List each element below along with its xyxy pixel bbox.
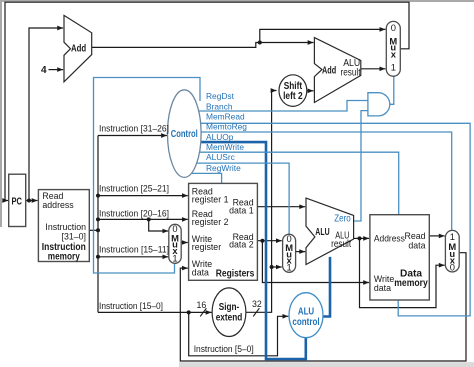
wire PC+4 from Add to branch Adder bbox=[92, 43, 314, 48]
node Instruction [20-16] branch junction bbox=[147, 217, 151, 221]
wire Branch control to AND gate bbox=[198, 101, 368, 112]
wire Instruction [31-26] to Control bbox=[98, 135, 167, 137]
wire MemWrite control to Data memory top bbox=[200, 152, 399, 214]
mux ALUSrc before ALU bbox=[283, 233, 296, 273]
svg-text:data: data bbox=[374, 283, 391, 293]
svg-text:register 2: register 2 bbox=[192, 217, 229, 227]
svg-text:x: x bbox=[391, 48, 397, 59]
svg-text:ALU: ALU bbox=[315, 226, 329, 238]
node ALU result junction bbox=[358, 236, 362, 240]
wire ALU result bypass to MemtoReg mux input 0 bbox=[360, 238, 445, 307]
wire Read data 2 branch to Data memory Write data bbox=[262, 241, 369, 283]
svg-text:ALUSrc: ALUSrc bbox=[206, 152, 235, 162]
svg-text:Instruction [15–11]: Instruction [15–11] bbox=[99, 245, 169, 255]
svg-text:Address: Address bbox=[374, 233, 406, 243]
svg-text:PC: PC bbox=[12, 196, 23, 208]
wire PC to Instruction memory read address bbox=[26, 200, 38, 202]
svg-text:MemWrite: MemWrite bbox=[206, 142, 244, 152]
wire shift-left-2 output to branch Adder bbox=[307, 90, 314, 92]
wire Data memory Read data to MemtoReg mux input 1 bbox=[429, 235, 444, 237]
node Instruction [15-0] junction bbox=[187, 310, 191, 314]
wire ALUOp control to ALU control (thick) bbox=[201, 142, 306, 359]
wire ALUSrc mux output to ALU bbox=[296, 251, 306, 253]
wire Instruction [20-16] to Read register 2 bbox=[98, 218, 188, 220]
mux RegDst before Registers bbox=[169, 223, 181, 263]
wire MemtoReg mux output wraps back to Write data of Registers bbox=[180, 253, 466, 361]
wire RegDst mux output to Write register bbox=[181, 242, 188, 244]
node PC+4 junction bbox=[258, 41, 262, 45]
wire AND gate output to PCSrc mux select bbox=[390, 76, 394, 104]
svg-text:left 2: left 2 bbox=[283, 91, 303, 102]
node bus junction instruction output bbox=[96, 228, 100, 232]
wire ALU result to Data memory Address bbox=[354, 237, 370, 239]
node bus junction for Instruction [15-11] bbox=[96, 255, 100, 259]
svg-text:0: 0 bbox=[391, 22, 396, 33]
wire branch Adder output to PCSrc mux input 1 bbox=[361, 68, 386, 70]
svg-text:ALUOp: ALUOp bbox=[206, 132, 234, 142]
adder Add (PC+4) bbox=[64, 15, 92, 81]
svg-text:Instruction [20–16]: Instruction [20–16] bbox=[99, 208, 169, 218]
register PC bbox=[9, 174, 26, 226]
svg-text:data: data bbox=[408, 240, 425, 250]
wire constant 4 into Add bbox=[49, 69, 64, 71]
wire PC+4 branch to PCSrc mux input 0 bbox=[260, 29, 386, 42]
svg-text:RegWrite: RegWrite bbox=[206, 163, 241, 173]
wire PC feedback (PCSrc mux output wraps to PC input) bbox=[5, 2, 409, 200]
svg-text:1: 1 bbox=[286, 262, 291, 273]
memory Instruction memory bbox=[38, 190, 89, 263]
wire ALU operation from ALU control to ALU (thick) bbox=[323, 257, 331, 317]
wire ALUSrc control to ALUSrc mux select bbox=[197, 163, 289, 234]
svg-text:Instruction [31–26]: Instruction [31–26] bbox=[99, 124, 169, 134]
wire Instruction [5-0] to ALU control bbox=[189, 312, 289, 355]
svg-text:Add: Add bbox=[322, 65, 336, 77]
border gray strips (cropped figure frame) bbox=[0, 0, 474, 2]
wire Instruction [20-16] branch to RegDst mux input 0 bbox=[149, 219, 169, 231]
wire RegDst control (blue wrap to RegDst mux select) bbox=[94, 78, 201, 274]
adder Add ALU result (branch target) bbox=[314, 38, 360, 103]
wire MemRead control to Data memory bottom bbox=[201, 123, 471, 316]
wire Read data 2 to ALUSrc mux input 0 bbox=[257, 240, 281, 242]
svg-text:register 1: register 1 bbox=[192, 195, 229, 205]
memory Data memory bbox=[370, 215, 429, 300]
svg-text:data 2: data 2 bbox=[229, 240, 254, 250]
alu ALU (main) bbox=[306, 198, 354, 264]
wire Instruction [15-0] to Sign-extend bbox=[98, 311, 212, 313]
svg-text:control: control bbox=[292, 316, 319, 328]
svg-text:1: 1 bbox=[172, 252, 177, 263]
wire instruction bus from Instruction memory bbox=[89, 136, 98, 313]
svg-text:Instruction [5–0]: Instruction [5–0] bbox=[194, 344, 254, 354]
mux PCSrc (top right) bbox=[386, 21, 400, 76]
svg-text:result: result bbox=[331, 239, 351, 250]
svg-text:4: 4 bbox=[41, 65, 47, 76]
svg-text:memory: memory bbox=[48, 251, 80, 262]
svg-text:1: 1 bbox=[391, 61, 396, 72]
wire Zero flag from ALU to AND gate bbox=[354, 111, 368, 221]
svg-text:16: 16 bbox=[197, 300, 207, 310]
svg-text:MemRead: MemRead bbox=[206, 112, 245, 122]
control unit ALU control bbox=[289, 293, 323, 338]
wire MemtoReg control to MemtoReg mux select bbox=[201, 132, 452, 230]
node bus junction for Instruction [25-21] bbox=[96, 194, 100, 198]
svg-text:data 1: data 1 bbox=[229, 206, 254, 216]
svg-text:address: address bbox=[42, 200, 74, 210]
control unit Control bbox=[168, 90, 202, 178]
node bus junction for Instruction [20-16] bbox=[96, 217, 100, 221]
svg-text:Instruction [25–21]: Instruction [25–21] bbox=[99, 184, 169, 194]
svg-text:result: result bbox=[341, 67, 361, 78]
wire Instruction [15-11] to RegDst mux input 1 bbox=[98, 256, 168, 258]
wire RegWrite control to Registers bbox=[192, 173, 222, 183]
wire Sign-extend branch to ALUSrc mux input 1 bbox=[272, 266, 282, 268]
svg-text:register: register bbox=[192, 242, 221, 252]
svg-text:Control: Control bbox=[171, 128, 198, 140]
wire Instruction [25-21] to Read register 1 bbox=[98, 195, 188, 197]
svg-text:[31–0]: [31–0] bbox=[62, 231, 86, 241]
svg-text:memory: memory bbox=[394, 278, 428, 289]
node PC output junction bbox=[27, 199, 31, 203]
svg-text:Read: Read bbox=[404, 231, 425, 241]
wire PC output up-branch to Add bbox=[29, 28, 63, 201]
svg-text:Branch: Branch bbox=[206, 101, 233, 111]
svg-text:Zero: Zero bbox=[334, 214, 351, 225]
svg-text:RegDst: RegDst bbox=[206, 91, 235, 101]
wire Sign-extend output up to Shift left 2 bbox=[246, 91, 277, 313]
wire Read data 1 to ALU bbox=[257, 206, 305, 208]
mux MemtoReg (right) bbox=[445, 230, 459, 272]
ellipse Shift left 2 bbox=[279, 75, 307, 107]
svg-text:MemtoReg: MemtoReg bbox=[206, 122, 247, 132]
svg-text:data: data bbox=[192, 267, 209, 277]
gate AND (Branch and Zero) bbox=[368, 93, 390, 116]
svg-text:Registers: Registers bbox=[216, 269, 255, 280]
svg-text:Add: Add bbox=[71, 43, 86, 55]
ellipse Sign-extend bbox=[212, 288, 246, 337]
svg-text:0: 0 bbox=[450, 261, 455, 272]
svg-text:Instruction [15–0]: Instruction [15–0] bbox=[99, 301, 163, 311]
register file Registers bbox=[189, 183, 258, 280]
node sign-extend branch junction bbox=[270, 265, 274, 269]
svg-text:extend: extend bbox=[216, 312, 243, 323]
node Read data 2 junction bbox=[260, 239, 264, 243]
svg-text:32: 32 bbox=[252, 299, 262, 309]
